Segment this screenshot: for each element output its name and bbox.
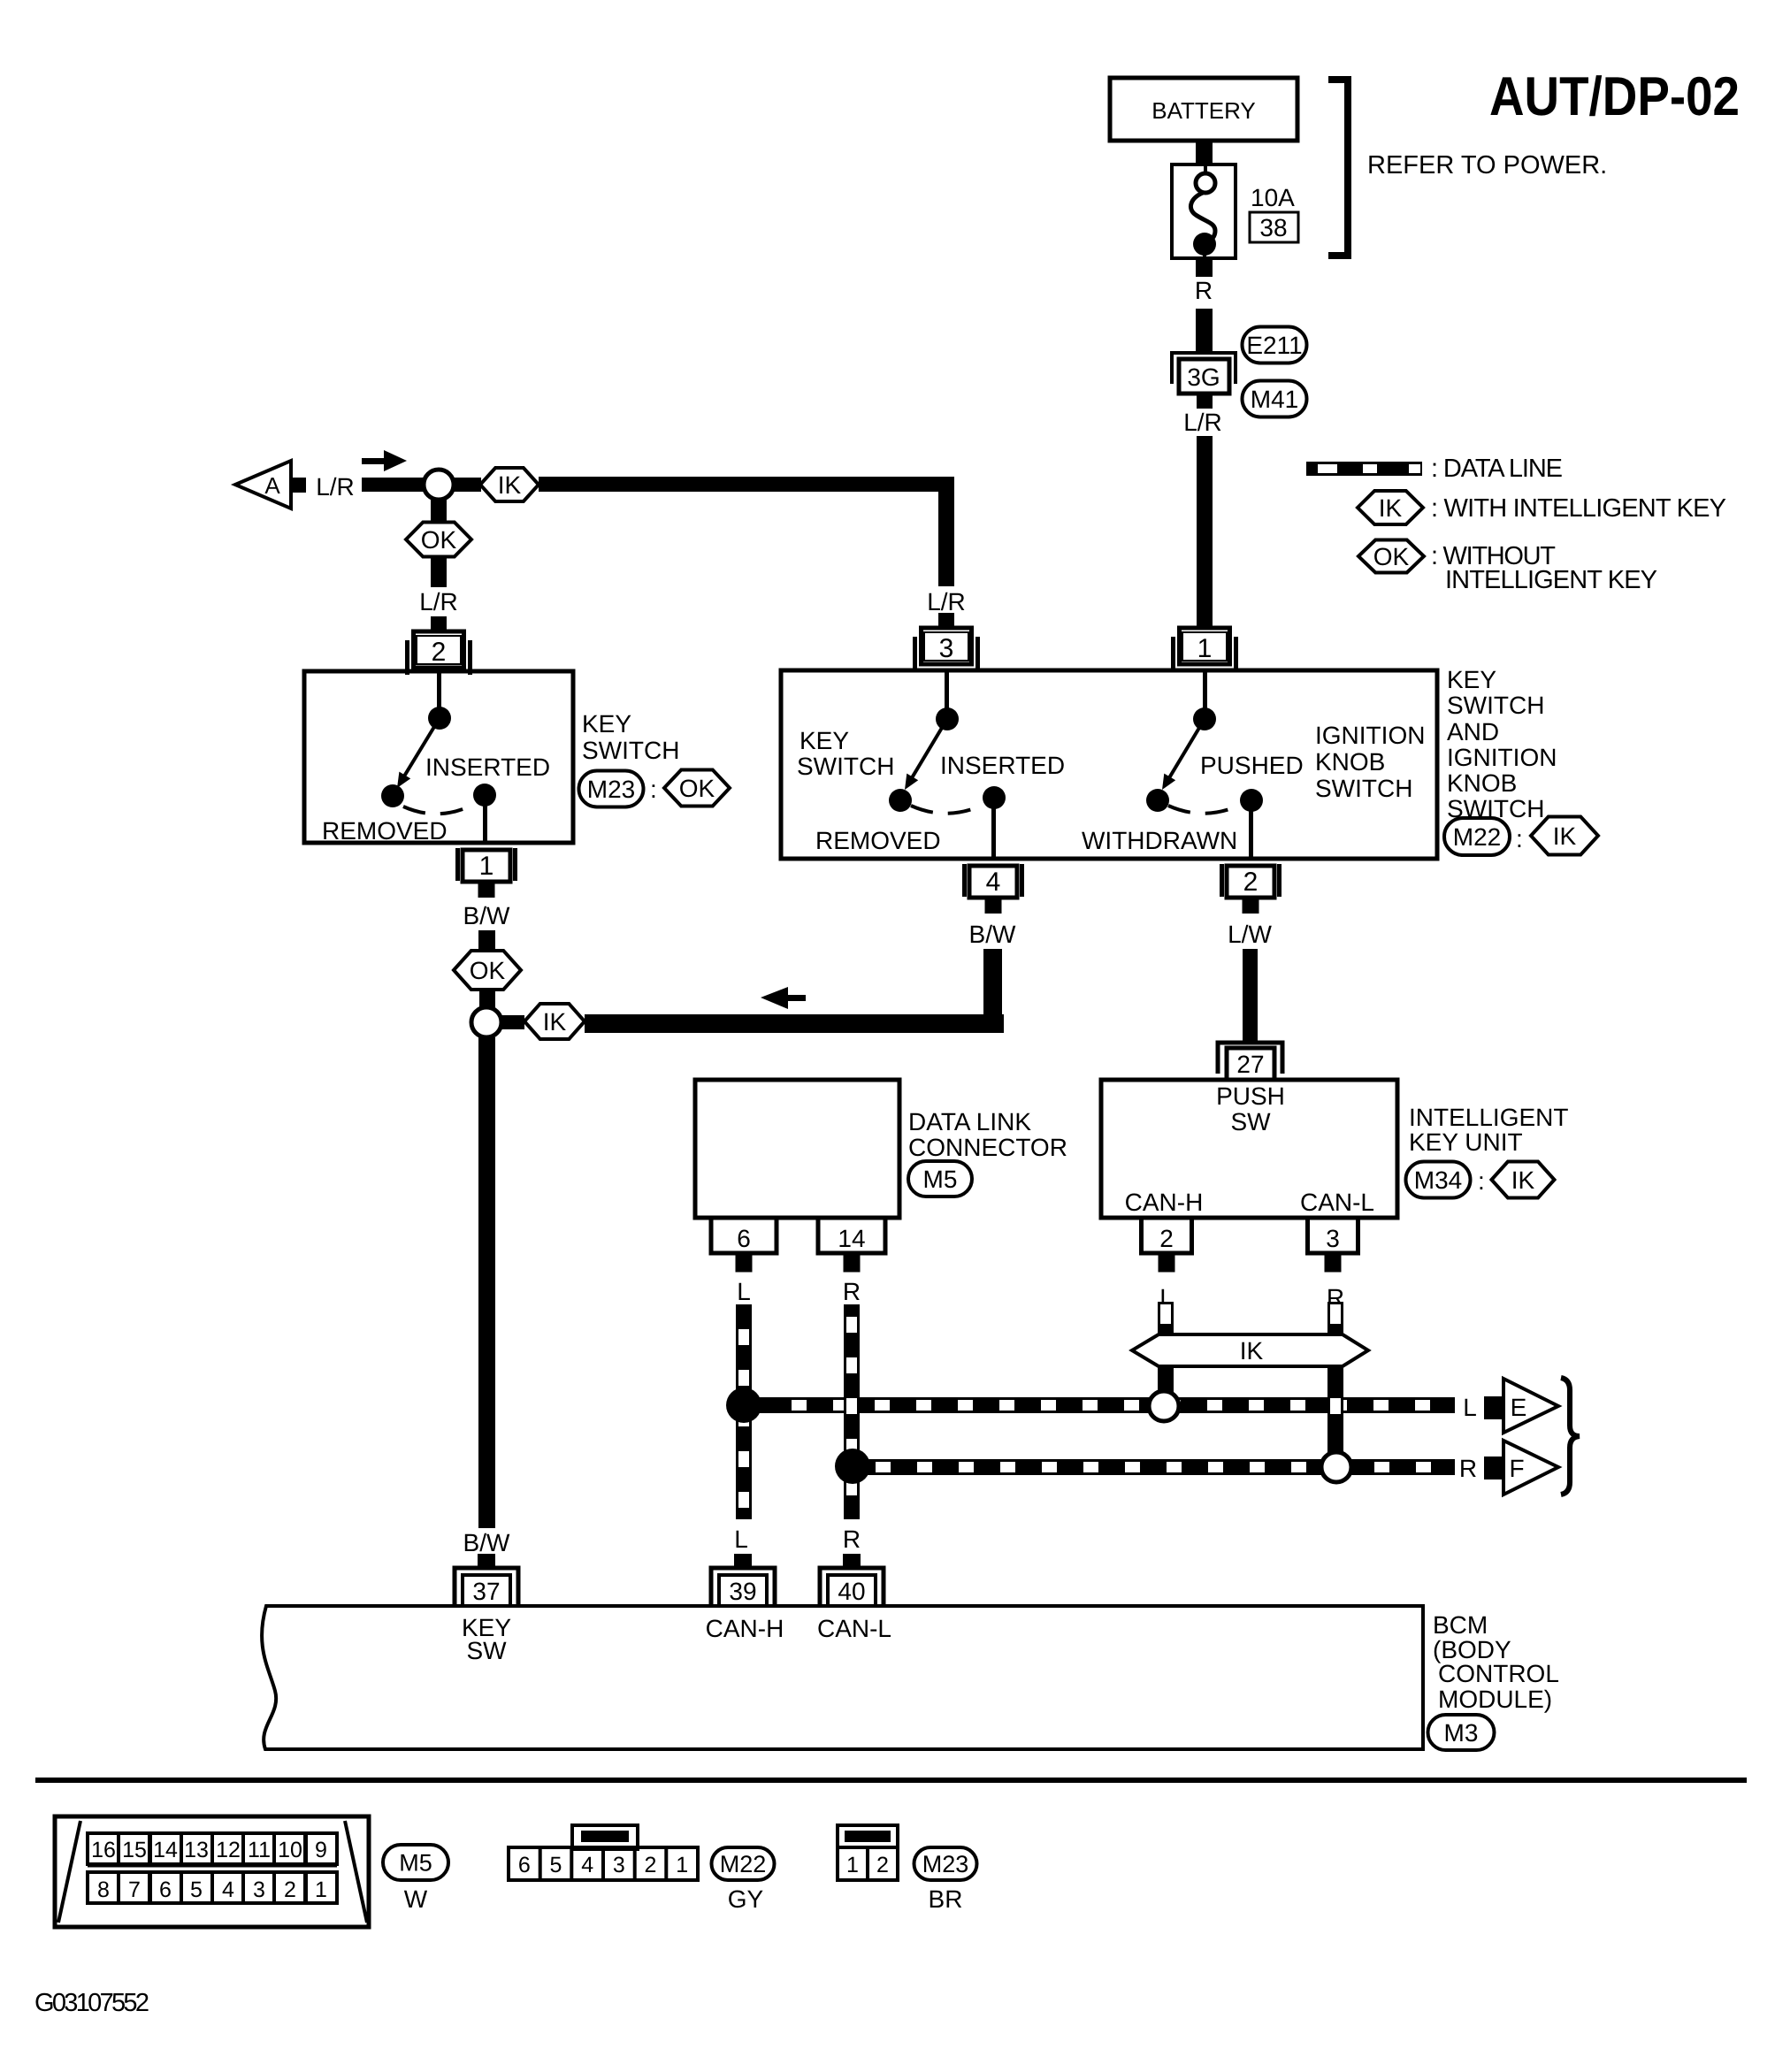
label PUSHED bbox=[1200, 752, 1304, 779]
svg-text:REMOVED: REMOVED bbox=[815, 827, 941, 854]
svg-text:8: 8 bbox=[97, 1877, 110, 1902]
legend label WITHOUT bbox=[1431, 542, 1556, 570]
pin 27 connector bbox=[1218, 1043, 1282, 1080]
svg-text:3: 3 bbox=[253, 1877, 265, 1902]
title AUT/DP-02 bbox=[1489, 66, 1740, 127]
legend label WITH INTELLIGENT KEY bbox=[1431, 494, 1726, 523]
svg-text:SWITCH: SWITCH bbox=[797, 753, 894, 780]
label IGNITION KNOB SWITCH bbox=[1315, 722, 1425, 802]
wire stub at A bbox=[293, 478, 306, 493]
data wire L from DLC pin 6 bbox=[736, 1304, 752, 1519]
wire pin 3 into switch bbox=[945, 672, 949, 709]
wire 3G to pin 1 bbox=[1197, 436, 1213, 615]
svg-text:REFER TO POWER.: REFER TO POWER. bbox=[1367, 151, 1607, 180]
svg-text:1: 1 bbox=[479, 852, 494, 881]
svg-text:IGNITION: IGNITION bbox=[1447, 744, 1557, 771]
label BCM (BODY CONTROL MODULE) bbox=[1433, 1611, 1559, 1713]
label KEY SW (BCM) bbox=[462, 1614, 511, 1664]
svg-text:2: 2 bbox=[432, 638, 447, 667]
svg-text:M3: M3 bbox=[1444, 1719, 1479, 1747]
svg-text:KEY: KEY bbox=[582, 710, 631, 738]
svg-text:R: R bbox=[843, 1278, 861, 1305]
junction dot CAN-L / R bbox=[835, 1449, 870, 1484]
connector square F bbox=[1484, 1457, 1505, 1479]
svg-text:L/R: L/R bbox=[316, 473, 355, 501]
flag IK B/W chain bbox=[524, 1004, 585, 1039]
svg-text:L/R: L/R bbox=[1183, 409, 1222, 436]
svg-text:CAN-H: CAN-H bbox=[706, 1615, 784, 1642]
legend flag IK bbox=[1358, 491, 1423, 524]
svg-text:PUSH: PUSH bbox=[1216, 1082, 1285, 1110]
svg-text:KNOB: KNOB bbox=[1447, 769, 1517, 797]
svg-text:: WITH INTELLIGENT KEY: : WITH INTELLIGENT KEY bbox=[1431, 494, 1726, 523]
svg-text:L: L bbox=[737, 1278, 751, 1305]
svg-text:IK: IK bbox=[543, 1008, 567, 1036]
svg-text:IK: IK bbox=[1240, 1337, 1264, 1365]
svg-text:CAN-L: CAN-L bbox=[817, 1615, 891, 1642]
svg-text:M34: M34 bbox=[1414, 1166, 1462, 1194]
connector face M23 (2-pin) bbox=[838, 1825, 898, 1880]
wire INSERTED to pin 1 bbox=[483, 800, 487, 843]
connector 3G bbox=[1172, 353, 1236, 409]
ref M22 : IK bbox=[1444, 817, 1598, 856]
label INSERTED bbox=[425, 753, 550, 781]
svg-text:E: E bbox=[1511, 1394, 1527, 1421]
pin 37 connector bbox=[455, 1554, 518, 1606]
wire junction to IK flag (B/W) bbox=[501, 1015, 524, 1029]
fuse number 38 bbox=[1250, 212, 1298, 242]
pin 3 connector bbox=[913, 613, 980, 671]
label KEY SWITCH AND IGNITION KNOB SWITCH bbox=[1447, 666, 1557, 822]
ref M5 face bbox=[383, 1845, 448, 1913]
data link connector box M5 bbox=[695, 1080, 899, 1218]
svg-text::: : bbox=[1478, 1167, 1485, 1195]
svg-text:IK: IK bbox=[1511, 1166, 1535, 1194]
svg-text:IK: IK bbox=[1379, 494, 1403, 522]
wire OK flag to junction bbox=[479, 990, 495, 1007]
svg-text:3G: 3G bbox=[1187, 363, 1220, 391]
data wire L from IKU pin 2 bbox=[1158, 1302, 1174, 1393]
svg-text:G03107552: G03107552 bbox=[34, 1989, 149, 2017]
label REMOVED (M22) text bbox=[815, 827, 941, 854]
key switch 2 common contact bbox=[936, 707, 959, 730]
svg-text:4: 4 bbox=[581, 1853, 593, 1877]
svg-text:AND: AND bbox=[1447, 718, 1499, 745]
svg-text:13: 13 bbox=[184, 1838, 209, 1862]
svg-text:WITHDRAWN: WITHDRAWN bbox=[1082, 827, 1237, 854]
wire PUSHED to pin 2 bbox=[1249, 806, 1253, 859]
fuse rating 10A bbox=[1251, 184, 1295, 211]
flow arrow left bbox=[761, 987, 806, 1009]
svg-text:A: A bbox=[264, 472, 280, 499]
svg-text:SW: SW bbox=[466, 1637, 507, 1664]
svg-text:6: 6 bbox=[159, 1877, 172, 1902]
contact WITHDRAWN bbox=[1146, 789, 1169, 812]
BCM box M3 bbox=[262, 1606, 1423, 1749]
key switch common contact bbox=[428, 707, 451, 730]
svg-text:2: 2 bbox=[876, 1853, 889, 1877]
ref M23 : OK bbox=[579, 770, 731, 807]
svg-text:M23: M23 bbox=[922, 1851, 969, 1877]
svg-text:M41: M41 bbox=[1251, 386, 1298, 413]
svg-text:KNOB: KNOB bbox=[1315, 748, 1385, 776]
wire pin 2 to pin 27 bbox=[1243, 949, 1258, 1043]
svg-text:KEY: KEY bbox=[1447, 666, 1496, 693]
label CAN-L (M34) bbox=[1300, 1189, 1374, 1216]
legend flag OK bbox=[1358, 540, 1424, 573]
svg-text:9: 9 bbox=[315, 1838, 327, 1862]
svg-text:KEY: KEY bbox=[800, 727, 849, 754]
svg-text:2: 2 bbox=[645, 1853, 657, 1877]
svg-text:1: 1 bbox=[315, 1877, 327, 1902]
pin 1 connector (key switch) bbox=[455, 848, 517, 898]
wire color L/R at pin 3 bbox=[927, 588, 966, 615]
pin 39 connector bbox=[711, 1554, 775, 1606]
wire color L below IKU pin 2 bbox=[1159, 1284, 1174, 1311]
svg-text:12: 12 bbox=[216, 1838, 241, 1862]
data wire R from DLC pin 14 bbox=[844, 1304, 860, 1519]
svg-text:M22: M22 bbox=[1453, 823, 1501, 851]
off-page arrow E bbox=[1503, 1379, 1558, 1433]
legend label INTELLIGENT KEY bbox=[1445, 566, 1657, 594]
svg-text:BR: BR bbox=[929, 1885, 963, 1913]
svg-text:IGNITION: IGNITION bbox=[1315, 722, 1425, 749]
fuse F38 10A bbox=[1172, 164, 1236, 258]
data line CAN-L bbox=[853, 1459, 1455, 1475]
junction circle L/R bbox=[424, 470, 454, 500]
key switch box M23 bbox=[304, 671, 573, 843]
wire color L/R at A bbox=[316, 473, 355, 501]
svg-text:SWITCH: SWITCH bbox=[1447, 692, 1544, 719]
svg-text:M22: M22 bbox=[720, 1851, 767, 1877]
svg-text:SWITCH: SWITCH bbox=[1315, 775, 1412, 802]
svg-text:REMOVED: REMOVED bbox=[322, 817, 448, 845]
label WITHDRAWN bbox=[1082, 827, 1237, 854]
svg-text:1: 1 bbox=[846, 1853, 859, 1877]
ignition knob throw arc bbox=[1168, 805, 1241, 814]
wire color R before F bbox=[1459, 1455, 1477, 1482]
contact REMOVED (M22) bbox=[889, 789, 912, 812]
key switch 2 throw arc bbox=[911, 805, 983, 814]
svg-text:2: 2 bbox=[1159, 1225, 1174, 1252]
pin 1 connector (battery chain) bbox=[1171, 613, 1238, 671]
wire pin 2 into key switch bbox=[437, 673, 441, 710]
svg-text:B/W: B/W bbox=[463, 1529, 510, 1556]
svg-text:OK: OK bbox=[679, 775, 715, 802]
svg-text::: : bbox=[1516, 825, 1523, 853]
svg-text:OK: OK bbox=[1373, 543, 1410, 570]
svg-text:5: 5 bbox=[190, 1877, 203, 1902]
label INSERTED (M22) bbox=[940, 752, 1065, 779]
svg-text:B/W: B/W bbox=[969, 921, 1016, 948]
svg-text:OK: OK bbox=[470, 957, 506, 984]
svg-text:L/R: L/R bbox=[419, 588, 458, 615]
contact INSERTED bbox=[473, 784, 496, 807]
label INTELLIGENT KEY UNIT bbox=[1409, 1104, 1568, 1156]
svg-text:M23: M23 bbox=[587, 776, 635, 803]
svg-text:MODULE): MODULE) bbox=[1438, 1686, 1552, 1713]
svg-text:40: 40 bbox=[838, 1578, 865, 1605]
pin 2 connector (knob switch) bbox=[1220, 864, 1282, 914]
wire A to junction bbox=[362, 478, 424, 492]
svg-text:38: 38 bbox=[1259, 214, 1287, 241]
pin 2 connector (IKU) bbox=[1142, 1218, 1192, 1273]
svg-text:DATA LINK: DATA LINK bbox=[908, 1108, 1031, 1135]
label CAN-L (BCM) bbox=[817, 1615, 891, 1642]
svg-text:SW: SW bbox=[1230, 1108, 1271, 1135]
svg-text:BCM: BCM bbox=[1433, 1611, 1488, 1639]
svg-text::: : bbox=[650, 776, 657, 803]
svg-text:KEY UNIT: KEY UNIT bbox=[1409, 1128, 1523, 1156]
svg-text:14: 14 bbox=[153, 1838, 178, 1862]
brace for E and F bbox=[1561, 1378, 1580, 1495]
svg-text:AUT/DP-02: AUT/DP-02 bbox=[1489, 66, 1740, 127]
svg-text:39: 39 bbox=[729, 1578, 756, 1605]
svg-text:M5: M5 bbox=[399, 1850, 432, 1877]
key switch throw arc bbox=[403, 804, 475, 814]
wire color R above pin 40 bbox=[843, 1525, 861, 1553]
splice circle CAN-L bbox=[1321, 1452, 1351, 1482]
svg-text:GY: GY bbox=[728, 1885, 764, 1913]
connector square E bbox=[1484, 1396, 1505, 1419]
wire color R bbox=[1195, 277, 1213, 304]
wire B/W to OK flag bbox=[478, 930, 495, 952]
svg-text:11: 11 bbox=[248, 1838, 271, 1862]
intelligent key unit box M34 bbox=[1101, 1080, 1397, 1218]
svg-text:L: L bbox=[734, 1525, 748, 1553]
svg-text:CONNECTOR: CONNECTOR bbox=[908, 1134, 1067, 1161]
wire R to connector 3G bbox=[1196, 309, 1213, 355]
label REMOVED bbox=[322, 817, 448, 845]
svg-text:E211: E211 bbox=[1246, 332, 1302, 359]
key switch 2 arm bbox=[905, 719, 947, 790]
connector ref E211 bbox=[1243, 327, 1307, 363]
key switch and ignition knob switch box M22 bbox=[781, 670, 1437, 859]
connector ref M41 bbox=[1243, 381, 1307, 417]
svg-text:BATTERY: BATTERY bbox=[1151, 97, 1256, 124]
legend label DATA LINE bbox=[1431, 455, 1563, 483]
svg-text:OK: OK bbox=[421, 526, 457, 554]
pin 4 connector bbox=[962, 864, 1024, 914]
svg-text:M5: M5 bbox=[923, 1166, 958, 1193]
svg-text:CAN-L: CAN-L bbox=[1300, 1189, 1374, 1216]
flag OK B/W chain bbox=[454, 951, 521, 990]
svg-text:16: 16 bbox=[91, 1838, 116, 1862]
svg-text:IK: IK bbox=[498, 471, 522, 499]
svg-text:CAN-H: CAN-H bbox=[1125, 1189, 1204, 1216]
pin 14 connector bbox=[818, 1218, 885, 1273]
connector face M5 (16-pin) bbox=[55, 1816, 369, 1927]
flag IK top bbox=[480, 468, 539, 501]
svg-text:7: 7 bbox=[128, 1877, 141, 1902]
refer-to-power bracket bbox=[1328, 80, 1348, 256]
svg-text:L/W: L/W bbox=[1228, 921, 1272, 948]
ignition knob common contact bbox=[1193, 707, 1216, 730]
label CAN-H (M34) bbox=[1125, 1189, 1204, 1216]
svg-text:1: 1 bbox=[1197, 634, 1213, 663]
pin 40 connector bbox=[820, 1554, 884, 1606]
wire IK flag to pin 3 corner bbox=[539, 477, 954, 586]
wire color L/R below 3G bbox=[1183, 409, 1222, 436]
svg-text:W: W bbox=[404, 1885, 428, 1913]
junction dot CAN-H / L bbox=[726, 1388, 761, 1423]
ignition knob arm bbox=[1162, 719, 1205, 790]
svg-text:10A: 10A bbox=[1251, 184, 1295, 211]
ref M22 face bbox=[712, 1847, 775, 1913]
wire battery to fuse bbox=[1196, 141, 1213, 165]
svg-text:3: 3 bbox=[1326, 1225, 1340, 1252]
wire color L above pin 39 bbox=[734, 1525, 748, 1553]
wire IK flag to pin 4 corner bbox=[585, 1014, 1004, 1033]
wire color L before E bbox=[1463, 1394, 1477, 1421]
connector face M22 (6-pin) bbox=[509, 1825, 698, 1880]
ref M23 face bbox=[914, 1847, 977, 1913]
svg-text:PUSHED: PUSHED bbox=[1200, 752, 1304, 779]
svg-text:37: 37 bbox=[472, 1578, 500, 1605]
ref M3 bbox=[1428, 1715, 1495, 1750]
svg-text:4: 4 bbox=[222, 1877, 234, 1902]
wire pin 4 down to corner bbox=[983, 949, 1002, 1033]
svg-text:L: L bbox=[1463, 1394, 1477, 1421]
flag OK left chain bbox=[406, 523, 471, 557]
contact INSERTED (M22) bbox=[983, 786, 1006, 809]
svg-text:15: 15 bbox=[122, 1838, 147, 1862]
off-page arrow F bbox=[1503, 1441, 1558, 1495]
ref M34 : IK bbox=[1406, 1162, 1555, 1198]
svg-text:F: F bbox=[1509, 1455, 1524, 1482]
svg-text:IK: IK bbox=[1553, 822, 1577, 850]
wire color L/W bbox=[1228, 921, 1272, 948]
wire color B/W below pin 4 bbox=[969, 921, 1016, 948]
svg-text:14: 14 bbox=[838, 1225, 865, 1252]
label CAN-H (BCM) bbox=[706, 1615, 784, 1642]
contact PUSHED bbox=[1240, 789, 1263, 812]
wire color L/R at pin 2 bbox=[419, 588, 458, 615]
wire color R below IKU pin 3 bbox=[1327, 1284, 1344, 1311]
label KEY SWITCH (M23) bbox=[582, 710, 679, 764]
svg-text:B/W: B/W bbox=[463, 902, 510, 929]
svg-text:INSERTED: INSERTED bbox=[940, 752, 1065, 779]
svg-text:SWITCH: SWITCH bbox=[582, 737, 679, 764]
figure id G03107552 bbox=[34, 1989, 149, 2017]
flow arrow right bbox=[362, 450, 407, 471]
svg-text:INTELLIGENT KEY: INTELLIGENT KEY bbox=[1445, 566, 1657, 594]
legend data line sample bbox=[1306, 462, 1422, 476]
svg-text:6: 6 bbox=[518, 1853, 531, 1877]
wire INSERTED to pin 4 bbox=[991, 803, 996, 859]
data line CAN-H bbox=[752, 1397, 1455, 1413]
flag IK banner bbox=[1132, 1334, 1368, 1366]
wire junction to IK flag bbox=[454, 478, 481, 492]
battery B1 bbox=[1110, 78, 1297, 141]
wire junction down to OK flag bbox=[431, 498, 447, 524]
key switch arm bbox=[397, 718, 440, 788]
svg-text:3: 3 bbox=[613, 1853, 625, 1877]
svg-text:6: 6 bbox=[737, 1225, 751, 1252]
svg-text:1: 1 bbox=[676, 1853, 688, 1877]
svg-text:INTELLIGENT: INTELLIGENT bbox=[1409, 1104, 1568, 1131]
svg-text:INSERTED: INSERTED bbox=[425, 753, 550, 781]
svg-text:R: R bbox=[1195, 277, 1213, 304]
pin 2 connector bbox=[405, 616, 472, 675]
pin 6 connector bbox=[711, 1218, 777, 1273]
splice circle CAN-H bbox=[1149, 1391, 1179, 1421]
wire color R below pin 14 bbox=[843, 1278, 861, 1305]
wire B/W junction down to BCM bbox=[478, 1037, 495, 1528]
svg-text:2: 2 bbox=[284, 1877, 296, 1902]
svg-text:CONTROL: CONTROL bbox=[1438, 1660, 1559, 1687]
label REFER TO POWER. bbox=[1367, 151, 1607, 180]
separator line bbox=[35, 1778, 1747, 1783]
contact REMOVED bbox=[381, 784, 404, 807]
svg-text:5: 5 bbox=[550, 1853, 562, 1877]
svg-text:L/R: L/R bbox=[927, 588, 966, 615]
ref M5 bbox=[908, 1161, 972, 1197]
label KEY SWITCH inside bbox=[797, 727, 894, 780]
svg-text:4: 4 bbox=[986, 868, 1001, 897]
wire OK flag to L/R bbox=[431, 556, 447, 587]
svg-text:2: 2 bbox=[1243, 868, 1259, 897]
svg-text:R: R bbox=[843, 1525, 861, 1553]
svg-text:27: 27 bbox=[1236, 1051, 1264, 1078]
label PUSH SW bbox=[1216, 1082, 1285, 1135]
data wire R from IKU pin 3 bbox=[1327, 1302, 1343, 1454]
wire pin 1 into knob switch bbox=[1203, 672, 1207, 709]
wire fuse to R bbox=[1196, 258, 1213, 277]
wire color B/W above pin 37 bbox=[463, 1529, 510, 1556]
svg-text:10: 10 bbox=[278, 1838, 302, 1862]
off-page arrow A bbox=[235, 461, 291, 508]
wire color B/W below pin 1 bbox=[463, 902, 510, 929]
svg-text:3: 3 bbox=[939, 634, 954, 663]
label DATA LINK CONNECTOR bbox=[908, 1108, 1067, 1161]
svg-text:: DATA LINE: : DATA LINE bbox=[1431, 455, 1563, 483]
pin 3 connector (IKU) bbox=[1308, 1218, 1358, 1273]
junction circle B/W bbox=[471, 1007, 501, 1037]
svg-text:R: R bbox=[1459, 1455, 1477, 1482]
wire color L below pin 6 bbox=[737, 1278, 751, 1305]
